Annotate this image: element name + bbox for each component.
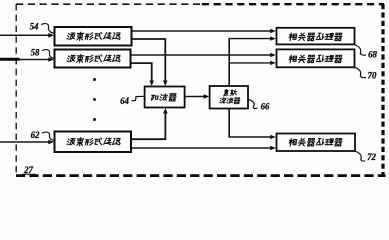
wire: input line into beamform delay 62 [0, 141, 50, 143]
block 54: beamform delay box [55, 27, 132, 46]
wire: box54 lower output down to adder [132, 39, 166, 82]
wire: box58 upper output to correlator 70 [131, 54, 273, 56]
leader for 54 [41, 24, 55, 34]
wire: box62 upper output up into adder bottom [131, 112, 165, 139]
svg-text:72: 72 [367, 152, 376, 162]
dashed enclosure 27 : bottom border [16, 174, 386, 177]
block 68: correlator processor box [277, 28, 355, 45]
wire: adder output to complex filter [185, 96, 206, 98]
block 70: correlator processor box [277, 49, 355, 67]
wire: input line into beamform delay 58 (thick scan blob at left) [0, 59, 50, 61]
leader for 70 [355, 67, 367, 77]
svg-text:64: 64 [120, 96, 129, 106]
dashed enclosure 27 : right border [381, 4, 384, 177]
dashed enclosure 27 : left border [15, 4, 17, 175]
block 64: adder box [145, 87, 185, 108]
wire: input line into beamform delay 54 [0, 34, 50, 36]
block 66: complex filter box [210, 86, 248, 109]
ellipsis dots between delay blocks [93, 78, 96, 81]
block 72: correlator processor box [277, 134, 356, 152]
svg-text:62: 62 [31, 130, 40, 140]
block 62: beamform delay box [55, 132, 132, 153]
leader for 72 [355, 151, 365, 161]
leader for 62 [42, 132, 55, 140]
wire: box54 upper output to correlator 68 [132, 30, 273, 32]
dashed enclosure 27 : top border [16, 3, 200, 5]
wire: complex filter up-feed vertical [228, 39, 230, 86]
wire: box62 lower output to correlator 72 [131, 147, 273, 149]
arrow into box 62 [48, 140, 54, 145]
wire: box58 lower output down to adder [131, 63, 152, 82]
svg-text:27: 27 [23, 165, 33, 175]
svg-text:68: 68 [368, 50, 377, 60]
wire: filter branch to correlator 68 lower input [228, 38, 272, 40]
wire: complex filter down-feed to correlator 72 upper input [229, 109, 272, 138]
svg-text:70: 70 [368, 71, 377, 81]
arrow into box 54 [48, 33, 54, 38]
leader for 66 [248, 100, 258, 109]
wire: filter branch to correlator 70 lower input [228, 62, 272, 64]
block 58: beamform delay box [55, 50, 131, 68]
svg-text:66: 66 [261, 102, 270, 112]
leader for 64 [132, 96, 145, 101]
svg-text:58: 58 [31, 48, 40, 58]
svg-text:54: 54 [30, 22, 39, 32]
leader for 68 [355, 45, 367, 56]
arrow into box 58 [48, 57, 54, 62]
leader for 58 [42, 50, 55, 59]
